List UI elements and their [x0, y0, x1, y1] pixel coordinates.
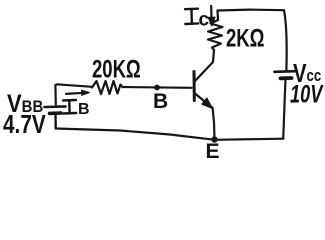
wire top horizontal: [218, 9, 285, 12]
wire emitter to bottom: [213, 108, 215, 140]
label IC: [185, 9, 198, 24]
resistor RC 2KΩ: [208, 20, 223, 50]
svg-text:10V: 10V: [290, 80, 324, 109]
transistor Q1 collector lead: [195, 50, 214, 81]
wire right vertical upper: [284, 10, 287, 70]
label IB: [63, 100, 76, 114]
node B junction dot: [154, 85, 160, 91]
wire resistor to base: [123, 86, 192, 89]
resistor R 20KΩ: [92, 81, 123, 94]
svg-text:E: E: [206, 140, 220, 163]
transistor Q1 emitter arrowhead: [202, 98, 213, 109]
battery VCC: [275, 71, 296, 131]
svg-text:B: B: [153, 90, 168, 113]
transistor Q1 base bar: [193, 72, 196, 101]
current arrow IB: [66, 90, 90, 95]
wire top-left from VBB to resistor: [55, 84, 92, 87]
wire bottom horizontal: [56, 129, 284, 140]
node E junction dot: [211, 136, 217, 142]
svg-text:c: c: [199, 10, 210, 31]
svg-text:2KΩ: 2KΩ: [226, 24, 264, 52]
wire top corner to resistor: [216, 11, 219, 21]
svg-text:B: B: [78, 101, 90, 118]
battery VBB: [45, 85, 66, 129]
wire left vertical bottom: [54, 115, 56, 129]
current arrow IC: [208, 6, 215, 26]
svg-text:4.7V: 4.7V: [3, 110, 46, 139]
wire bottom right corner: [282, 131, 284, 139]
transistor Q1 emitter lead: [195, 94, 212, 108]
svg-text:20KΩ: 20KΩ: [92, 55, 141, 83]
